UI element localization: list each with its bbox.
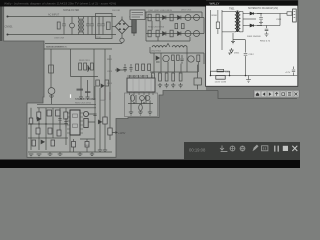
capacitor C905 (101, 17, 104, 35)
page canvas (0, 0, 300, 168)
ground G9 (138, 112, 142, 115)
wire bridge dc- (112, 26, 115, 28)
capacitor C912 win (257, 14, 263, 23)
svg-text:AC/DC CONVERT: AC/DC CONVERT (46, 46, 65, 49)
bridge rectifier D901 (115, 17, 129, 39)
node j3 (45, 123, 46, 124)
wire mid drop (71, 49, 99, 77)
ground G10 (148, 112, 152, 115)
wire left col e (59, 108, 61, 130)
optocoupler IC903 (83, 111, 88, 116)
wire mid hbus1 (28, 123, 68, 125)
sub box under IC (125, 93, 158, 117)
ground G23 (90, 152, 94, 156)
zener D920 win (228, 48, 240, 55)
wire standby rail upper (37, 103, 96, 105)
transistor Q901 (185, 15, 191, 21)
wire standby rail lower (37, 107, 96, 109)
diode bridge arm glyphs (119, 23, 125, 30)
node cluster joints (133, 102, 134, 103)
resistor R938 (48, 128, 52, 134)
transistor Q906 (188, 56, 194, 62)
diode D902 (163, 16, 166, 20)
ground G15 (78, 152, 83, 156)
svg-text:C916: C916 (225, 72, 231, 74)
connector CN902 win (293, 9, 297, 22)
capacitor C906 main filter (132, 12, 136, 36)
wire transformer jog (233, 33, 246, 40)
mouse cursor (70, 94, 71, 98)
resistor R921 (152, 73, 155, 81)
svg-text:R908: R908 (212, 15, 218, 17)
bottom black strip (0, 160, 300, 169)
resistor R923 (165, 73, 168, 81)
label 115V arrow (112, 131, 126, 135)
resistor R933 (56, 110, 61, 116)
resistor R928 (142, 64, 145, 70)
transformer T901 win (222, 7, 243, 32)
wire mid hbus2 (28, 137, 68, 139)
wire cluster drops (131, 95, 150, 112)
capacitor C911 (145, 96, 150, 101)
svg-text:R910 4.7k: R910 4.7k (260, 41, 271, 43)
ground G5 (164, 83, 168, 88)
resistor R902 (107, 22, 111, 30)
capacitor C916 (64, 118, 67, 126)
wire left col f (65, 108, 67, 145)
svg-text:SCHEMATIC DIAGRAM (2/2): SCHEMATIC DIAGRAM (2/2) (248, 7, 278, 10)
wire win sec out3 (243, 25, 262, 27)
svg-text:D921: D921 (234, 53, 240, 55)
capacitor C910 (140, 96, 145, 101)
scan edge dark band (0, 5, 2, 41)
diode D907 (88, 65, 90, 72)
svg-text:STANDBY POWER: STANDBY POWER (75, 98, 96, 101)
resistor R942 (103, 117, 107, 124)
wire L live rail (8, 16, 117, 18)
resistor R926 (179, 73, 182, 81)
wire coil peak (166, 44, 170, 48)
capacitor C917 win (292, 67, 295, 76)
ground G6 (171, 83, 175, 88)
transistor Q905 (163, 55, 169, 61)
resistor R904 (156, 14, 159, 21)
capacitor C915 (58, 115, 61, 123)
resistor R943 (108, 128, 112, 135)
svg-text:C908 C909: C908 C909 (54, 38, 65, 40)
node j1 (30, 123, 31, 124)
thermistor TH901 (70, 23, 75, 28)
capacitor C904 (97, 17, 100, 35)
transistor Q904 (194, 31, 200, 37)
label g1 (77, 89, 84, 91)
ground G2 (86, 94, 90, 100)
wire thermistor stubs (71, 17, 73, 35)
ground G18 win (259, 23, 263, 26)
wire left drop (50, 49, 53, 104)
node win j1 (210, 75, 212, 77)
svg-text:D901 BR: D901 BR (112, 10, 121, 12)
diode D917 (98, 120, 101, 124)
resistor R906 (148, 30, 151, 37)
capacitor C917 (93, 114, 96, 116)
wire win loop (211, 71, 230, 75)
node live terminal (7, 16, 9, 18)
player control bar (184, 142, 300, 160)
wire right col b (99, 88, 101, 148)
svg-text:+12V: +12V (285, 72, 291, 74)
resistor R936 (29, 118, 33, 124)
inductor L903 (172, 46, 187, 48)
svg-text:WALLY: WALLY (210, 2, 220, 6)
svg-text:Q901 Q902 LINE DRIVE: Q901 Q902 LINE DRIVE (148, 10, 173, 12)
wire lamp marks (49, 94, 54, 99)
svg-text:CN901: CN901 (5, 25, 14, 29)
resistor R920 (197, 55, 200, 62)
sheet border frame (stepped scan edge) (4, 5, 297, 157)
ground G8 (129, 112, 133, 115)
wire row B drop (146, 34, 190, 42)
resistor R910 (182, 24, 185, 29)
wire drop to G (81, 77, 88, 95)
label g2 (85, 91, 91, 93)
resistor R908 win (216, 22, 219, 29)
svg-text:NOISE FILTER: NOISE FILTER (63, 9, 79, 12)
svg-text:R912 C913: R912 C913 (79, 60, 90, 62)
diode D908 (101, 84, 104, 88)
capacitor C916 win (217, 69, 231, 73)
wire vr drop (197, 65, 199, 90)
ground G22 win (231, 40, 235, 44)
wire drop x94 (93, 49, 95, 100)
wire B+ feed (134, 11, 146, 13)
capacitor C907 (180, 55, 183, 64)
resistor R903 (148, 14, 151, 21)
transistor Q902 (194, 15, 200, 21)
resistor R940 (32, 140, 36, 146)
resistor R946 (85, 142, 89, 148)
ground G11 (29, 154, 34, 157)
wire bottom bus (28, 151, 112, 153)
resistor R908 (170, 30, 173, 37)
schematic sheet (light scanned paper) (4, 5, 207, 158)
capacitor C902 (86, 17, 89, 35)
regulator box VR901 (194, 78, 201, 85)
top title bar (0, 0, 206, 7)
svg-text:C923: C923 (107, 71, 113, 73)
wire driver row A (146, 17, 204, 19)
wire driver row B (146, 33, 204, 35)
ground G13 (48, 152, 53, 156)
wire left col d (52, 108, 54, 138)
wire drops to bus (154, 53, 198, 72)
resistor R944 win (287, 12, 292, 15)
svg-text:R915 C918 D906: R915 C918 D906 (148, 27, 165, 29)
diode D910 (117, 68, 120, 72)
ground G1 (79, 94, 83, 100)
wire win second vertical (221, 10, 223, 50)
line filter choke L901 (79, 17, 84, 35)
svg-text:Q902 C916: Q902 C916 (181, 10, 192, 12)
resistor R941 (51, 140, 55, 146)
svg-text:D913: D913 (107, 83, 113, 85)
wire bridge dc+ (129, 26, 134, 28)
svg-text:IC901 STR-S6707: IC901 STR-S6707 (128, 75, 148, 78)
wire N neutral rail (8, 34, 117, 36)
resistor R922 (159, 73, 162, 81)
wire right col d (109, 92, 111, 140)
svg-text:L902 T902: L902 T902 (151, 51, 162, 53)
navigation toolbar below window (254, 90, 299, 97)
wire left col b (38, 108, 40, 150)
resistor R919 (177, 55, 180, 60)
capacitor C909 (130, 64, 133, 72)
wire r946 stub (74, 139, 88, 152)
diode D904 (163, 32, 166, 36)
svg-text:00:19:08: 00:19:08 (189, 147, 206, 152)
wire right col c (104, 86, 106, 148)
wire feed drop B (109, 55, 111, 100)
wire right col a (94, 86, 96, 152)
wire win out run (261, 14, 287, 26)
wire section bus (44, 48, 112, 50)
capacitor C915 win (244, 50, 255, 59)
svg-text:T901: T901 (229, 7, 235, 10)
node win j3 (245, 75, 247, 77)
resistor R901 (57, 22, 60, 29)
diode D918 win (250, 12, 254, 15)
diode D915 (37, 117, 41, 121)
capacitor C903 (90, 17, 93, 35)
capacitor C908 (124, 64, 127, 72)
wire win bottom run (211, 75, 298, 77)
op-amp U1 control IC box (127, 75, 155, 95)
wire ic-right links (70, 114, 95, 152)
resistor R945 (72, 142, 76, 148)
resistor R913 (84, 63, 87, 70)
fuse protector F901 (120, 38, 124, 42)
node neutral terminal (7, 34, 9, 36)
ground G20 win (246, 76, 251, 83)
wire win sec out2 (243, 18, 256, 20)
ground G7 (178, 83, 182, 88)
resistor R937 (36, 128, 40, 134)
ground G19 win (265, 34, 269, 37)
wire win sec out1 (243, 13, 262, 15)
resistor R939 (57, 130, 61, 136)
wire win sec vert (242, 12, 244, 32)
ground G12 (37, 154, 42, 157)
wire left col c (45, 108, 47, 150)
node cluster joint2 (143, 102, 144, 103)
wire return bus (45, 43, 122, 44)
svg-text:+115V: +115V (118, 131, 126, 135)
resistor R935 (64, 112, 68, 119)
wire secondary rail (150, 47, 204, 64)
diode D916 (41, 140, 44, 144)
resistor R916 (96, 80, 100, 86)
diode D903 (178, 16, 181, 20)
resistor R929 (148, 64, 151, 70)
wire inter-row links (146, 12, 204, 34)
ground G16 (98, 148, 102, 152)
legend box (130, 10, 145, 20)
wire low bus (150, 71, 198, 73)
svg-text:Wally - [schematic diagram of: Wally - [schematic diagram of chassis 11… (4, 2, 116, 6)
resistor R905 (170, 14, 173, 21)
ground G4 (158, 83, 162, 88)
resistor R917 (105, 80, 109, 86)
resistor R911 (49, 65, 54, 73)
svg-text:AC INPUT: AC INPUT (48, 14, 60, 17)
svg-text:C912: C912 (249, 54, 255, 56)
wire driver top rail (146, 12, 202, 18)
resistor R927 (136, 64, 139, 70)
node j2 (38, 123, 39, 124)
inset window (WALLY viewer popup) (206, 1, 298, 87)
diode D912 (131, 95, 135, 101)
wire ic feed (115, 69, 127, 71)
resistor R932 (47, 110, 52, 116)
wire win left vertical (210, 10, 212, 76)
switcher IC902 (67, 110, 83, 135)
inductor L902 (152, 46, 166, 48)
resistor R934 (37, 112, 41, 119)
regulator box win (215, 76, 227, 84)
resistor R909 (175, 24, 178, 29)
diode D905 (178, 32, 181, 36)
resistor R914 (90, 63, 93, 70)
ground G14 (58, 152, 63, 156)
wire left col a (30, 108, 32, 150)
ground G3 (151, 83, 155, 88)
lamp LP901 (48, 88, 55, 95)
svg-text:D903 1N4148: D903 1N4148 (247, 36, 261, 38)
diode D909 (156, 56, 160, 62)
capacitor C913 win (257, 26, 268, 34)
resistor R918 (172, 55, 175, 60)
svg-text:12.6V COM: 12.6V COM (215, 82, 227, 84)
resistor R907 (156, 30, 159, 37)
node win j2 (229, 75, 231, 77)
ground G17 (103, 148, 107, 152)
svg-text:C914: C914 (276, 19, 282, 21)
wire win long vertical (245, 40, 247, 76)
capacitor C901 (62, 17, 65, 35)
svg-text:T901: T901 (84, 145, 90, 147)
diode D914 (139, 104, 143, 110)
resistor R912 (79, 63, 82, 70)
resistor R924 (172, 73, 175, 81)
diode D919 win (250, 24, 254, 27)
wire feed drop A (104, 49, 106, 100)
svg-text:R931: R931 (107, 59, 113, 61)
transistor Q903 (185, 31, 191, 37)
shield box line filter (96, 14, 113, 39)
wire cluster bus (128, 103, 153, 105)
